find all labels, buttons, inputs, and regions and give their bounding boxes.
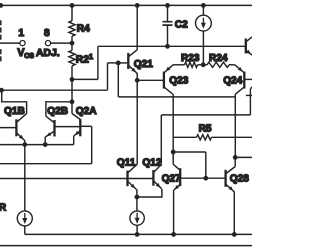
- wire Q12 collector vertical: [160, 115, 162, 164]
- wire tail rail: [25, 233, 252, 235]
- wire C2 bottom lead: [167, 26, 169, 47]
- svg-text:Q24: Q24: [223, 76, 242, 87]
- wire y90 line: [1, 89, 107, 91]
- transistor Q11 emitter arrow: [131, 184, 136, 189]
- transistor Q2A bar: [79, 119, 81, 137]
- wire Q2A emitter drop: [73, 136, 75, 145]
- transistor Q2A collector diagonal: [72, 114, 80, 120]
- wire C2 top lead: [167, 5, 169, 21]
- resistor R5: [197, 135, 212, 140]
- wire Q21 emitter to Q23 base: [137, 79, 163, 81]
- current source I3 arrow: [24, 213, 26, 220]
- terminal pin 8 circle: [45, 41, 50, 46]
- transistor Q27 bar: [179, 168, 181, 186]
- wire Q2B emitter drop: [44, 137, 46, 145]
- transistor Q1B bar: [15, 119, 17, 136]
- wire R4 bottom: [71, 36, 73, 43]
- wire y96.9 line east: [118, 96, 235, 98]
- wire R2 bottom to node: [71, 66, 73, 80]
- svg-text:R24: R24: [209, 53, 228, 64]
- transistor Q28 bar: [224, 170, 226, 187]
- transistor Q1B emitter diagonal: [17, 133, 25, 140]
- svg-text:Q2A: Q2A: [76, 106, 97, 117]
- svg-text:R5: R5: [199, 123, 212, 134]
- svg-text:R23: R23: [181, 53, 200, 64]
- wire y163.7 line: [0, 163, 92, 165]
- junction dot left edge y90: [0, 88, 4, 93]
- junction dot Q2B/Q2A collector node: [70, 99, 75, 104]
- wire I3 bottom corner: [24, 226, 26, 235]
- transistor Q11 collector diagonal: [128, 164, 137, 172]
- junction dot Q21 base node: [116, 61, 121, 66]
- wire Q28 emitter down: [233, 192, 235, 235]
- transistor Q23 collector diagonal: [164, 87, 173, 94]
- wire Q1B base: [0, 127, 16, 129]
- svg-text:Q23: Q23: [169, 76, 188, 87]
- transistor Q12 emitter diagonal: [154, 181, 162, 189]
- wire R23 to node: [198, 64, 204, 66]
- capacitor C2: [163, 22, 173, 25]
- wire Q2A base east: [80, 125, 91, 127]
- wire node to R24: [203, 64, 207, 66]
- wire tail to current source: [136, 197, 138, 211]
- junction dot Q2B emitter: [43, 142, 48, 147]
- wire Q1B emitter drop: [24, 140, 26, 144]
- wire current source top lead: [202, 5, 204, 15]
- wire Q2B collector route: [46, 102, 72, 116]
- wire R5 west: [173, 136, 196, 138]
- transistor Q27 collector diagonal: [173, 164, 180, 170]
- wire Q27-Q28 base line: [180, 177, 225, 179]
- transistor Q2A emitter diagonal: [74, 131, 80, 136]
- transistor Q12 bar: [152, 170, 154, 186]
- transistor Q24 collector diagonal: [235, 87, 244, 94]
- transistor Q24 emitter diagonal: [235, 65, 244, 73]
- junction dot top rail Q21 collector: [135, 3, 140, 8]
- svg-text:Q28: Q28: [230, 174, 249, 185]
- current source I2 arrow: [136, 213, 138, 220]
- transistor Q24 emitter arrow: [238, 67, 243, 71]
- junction dot I2 bottom: [135, 232, 140, 237]
- svg-text:R21: R21: [76, 52, 93, 65]
- transistor Q27 emitter diagonal: [174, 185, 180, 190]
- junction dot Q27/Q28 base net: [171, 150, 176, 155]
- transistor Q28 emitter diagonal: [226, 185, 234, 192]
- transistor Q11 emitter diagonal: [128, 182, 136, 190]
- wire current source to R23/R24 node: [202, 31, 204, 65]
- wire Q21 collector from rail: [136, 5, 138, 49]
- wire Q21 base node down: [117, 63, 119, 97]
- transistor Q28 collector diagonal: [226, 167, 235, 174]
- wire Q2A base down: [91, 126, 93, 163]
- svg-text:Q1B: Q1B: [4, 106, 25, 117]
- wire R23 west corner: [173, 64, 185, 66]
- svg-text:C2: C2: [175, 20, 188, 31]
- junction dot Q28 collector net: [233, 155, 238, 160]
- wire Q11/Q12 base line: [0, 178, 153, 180]
- wire Q24 collector down: [234, 94, 236, 157]
- wire top V+ rail: [0, 4, 252, 6]
- resistor R2-1: [69, 50, 75, 65]
- wire right-edge vertical: [249, 89, 251, 115]
- left edge dashed wire: [0, 20, 2, 61]
- junction dot node R2/Q21-emitter-line: [70, 77, 75, 82]
- transistor Q12 emitter arrow: [156, 183, 161, 188]
- junction dot R23/R24 node: [201, 62, 206, 67]
- resistor R23: [185, 62, 198, 67]
- wire base net down: [205, 152, 207, 178]
- svg-text:Q27: Q27: [162, 173, 181, 184]
- svg-text:Q21: Q21: [134, 59, 153, 70]
- transistor Q21 emitter diagonal: [129, 66, 137, 74]
- wire y114.9 line: [161, 114, 250, 116]
- wire corner up to C2 net: [97, 46, 99, 79]
- transistor Q2B collector diagonal: [46, 116, 54, 122]
- wire Q28 collector net stub east: [235, 156, 252, 158]
- transistor Q27 emitter arrow: [174, 185, 179, 190]
- wire Q28 collector drop: [234, 157, 236, 166]
- junction dot top rail C2: [165, 3, 170, 8]
- wire Q1B collector route: [2, 90, 27, 113]
- wire terminal 8 to R4/R2 node: [51, 42, 72, 44]
- wire Q2B base to Q2A: [55, 126, 81, 128]
- junction dot C2 bottom: [165, 44, 170, 49]
- current source I1 arrow: [202, 18, 204, 25]
- junction dot top rail left edge: [0, 3, 3, 8]
- wire jog down: [107, 63, 109, 90]
- transistor Q2A emitter arrow: [75, 131, 80, 135]
- wire Q21 emitter drop: [136, 73, 138, 81]
- wire Q12 emitter corner: [137, 189, 162, 197]
- svg-text:Q2B: Q2B: [47, 106, 68, 117]
- transistor Q2B emitter arrow: [46, 132, 51, 136]
- transistor Q1B collector diagonal: [17, 114, 27, 123]
- transistor Q1B emitter arrow: [19, 135, 24, 140]
- junction dot tail node: [135, 195, 140, 200]
- transistor Q2B bar: [53, 120, 55, 137]
- wire base net east: [173, 151, 206, 153]
- wire bus to current source I3: [24, 145, 26, 211]
- wire input emitter bus: [0, 144, 74, 146]
- current source I3 circle: [17, 211, 32, 226]
- wire bottom V- rail: [0, 245, 252, 247]
- transistor Q22 emitter arrow: [246, 50, 251, 54]
- transistor Q28 emitter arrow: [229, 186, 234, 191]
- svg-text:R4: R4: [77, 24, 90, 35]
- wire Q23 collector down: [172, 95, 174, 165]
- resistor R24: [207, 62, 229, 67]
- terminal pin 1 circle: [20, 41, 25, 46]
- wire node down to Q2 collectors: [71, 79, 73, 101]
- transistor Q21 emitter arrow: [131, 68, 136, 73]
- transistor Q21 bar: [127, 53, 129, 69]
- junction dot R4/R2 node: [70, 41, 75, 46]
- wire C2 bottom net: [98, 45, 245, 47]
- transistor Q2B emitter diagonal: [46, 131, 55, 137]
- junction dot Q1B emitter / tail: [22, 142, 27, 147]
- svg-text:R: R: [0, 203, 7, 214]
- transistor Q22 emitter diagonal: [246, 50, 252, 55]
- resistor R4: [69, 21, 75, 36]
- transistor Q23 emitter diagonal: [164, 65, 173, 73]
- wire right-edge diagonal: [250, 87, 252, 89]
- wire current source I2 bottom: [136, 225, 138, 234]
- transistor Q11 bar: [126, 171, 128, 187]
- svg-text:8: 8: [44, 28, 50, 39]
- wire Q21 emitter node down to Q11: [136, 80, 138, 164]
- svg-text:VOSADJ.: VOSADJ.: [17, 47, 59, 60]
- transistor Q21 collector diagonal: [129, 50, 137, 57]
- junction dot Q27 emitter: [171, 232, 176, 237]
- wire terminal 1: [0, 42, 20, 44]
- wire jog west: [108, 62, 119, 64]
- wire R5 east: [212, 136, 253, 138]
- wire R24 east corner: [229, 64, 235, 66]
- transistor Q23 bar: [163, 72, 165, 89]
- junction dot top rail R4: [70, 3, 75, 8]
- transistor Q22 collector diagonal: [246, 37, 252, 42]
- wire Q24 base east: [244, 78, 252, 80]
- wire R2 node east: [72, 78, 98, 80]
- transistor Q24 bar: [243, 72, 245, 89]
- transistor Q23 emitter arrow: [166, 67, 171, 72]
- wire right-edge stub: [246, 94, 252, 96]
- wire Q21 base: [118, 62, 127, 64]
- current source I2 circle: [130, 211, 144, 225]
- wire R2 top: [71, 43, 73, 50]
- transistor Q12 collector diagonal: [154, 164, 161, 172]
- junction dot Q27/Q28 base tie: [203, 176, 208, 181]
- transistor Q22 bar: [245, 39, 247, 54]
- wire R4 top: [71, 5, 73, 20]
- junction dot top rail current source: [201, 3, 206, 8]
- junction dot Q21 emitter node: [135, 78, 140, 83]
- svg-text:Q11: Q11: [117, 157, 136, 168]
- wire Q27 emitter down: [173, 190, 175, 234]
- junction dot Q28 emitter: [232, 232, 237, 237]
- svg-text:1: 1: [18, 28, 24, 39]
- wire Q2A collector drop: [71, 102, 73, 114]
- current source I1 circle: [196, 15, 212, 31]
- wire Q11 emitter drop: [136, 189, 138, 197]
